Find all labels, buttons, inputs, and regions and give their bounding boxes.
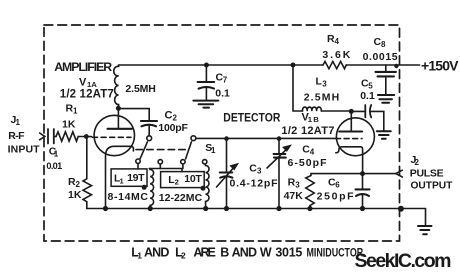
svg-text:6-50pF: 6-50pF — [288, 157, 328, 169]
svg-text:1/2 12AT7: 1/2 12AT7 — [281, 125, 334, 137]
svg-text:3: 3 — [295, 181, 300, 190]
svg-text:1: 1 — [137, 251, 142, 261]
svg-text:1: 1 — [73, 107, 78, 116]
svg-text:1K: 1K — [62, 119, 76, 131]
svg-text:2: 2 — [415, 158, 420, 167]
svg-text:250pF: 250pF — [317, 191, 355, 203]
svg-text:19T: 19T — [127, 172, 145, 184]
svg-text:INPUT: INPUT — [8, 144, 41, 156]
svg-text:2: 2 — [76, 180, 81, 189]
svg-text:6: 6 — [335, 181, 340, 190]
svg-text:B: B — [220, 245, 229, 259]
svg-text:DETECTOR: DETECTOR — [223, 112, 281, 125]
svg-text:+150V: +150V — [421, 58, 459, 74]
svg-text:W: W — [260, 245, 272, 259]
svg-text:8: 8 — [381, 40, 386, 49]
svg-text:1: 1 — [54, 149, 59, 158]
svg-text:OUTPUT: OUTPUT — [411, 181, 454, 192]
svg-text:1: 1 — [16, 118, 21, 127]
svg-text:10T: 10T — [184, 173, 202, 185]
svg-text:4: 4 — [335, 37, 340, 46]
svg-text:ARE: ARE — [193, 245, 216, 259]
svg-text:2: 2 — [175, 178, 179, 187]
svg-text:1K: 1K — [68, 189, 82, 201]
svg-text:3015: 3015 — [275, 245, 302, 259]
svg-text:AND: AND — [232, 245, 257, 259]
svg-text:0.01: 0.01 — [46, 161, 62, 171]
svg-text:12-22MC: 12-22MC — [159, 192, 203, 204]
svg-text:V: V — [79, 77, 87, 89]
svg-text:R-F: R-F — [8, 130, 25, 142]
svg-text:SeekIC.com: SeekIC.com — [355, 250, 452, 272]
svg-text:1B: 1B — [308, 115, 319, 124]
svg-text:47K: 47K — [284, 190, 304, 202]
svg-text:AMPLIFIER: AMPLIFIER — [54, 60, 112, 74]
svg-text:C: C — [165, 110, 173, 122]
svg-text:8-14MC: 8-14MC — [108, 191, 149, 203]
svg-text:3: 3 — [322, 80, 327, 89]
svg-text:PULSE: PULSE — [410, 168, 444, 180]
svg-text:2.5MH: 2.5MH — [304, 92, 340, 104]
svg-text:2.5MH: 2.5MH — [125, 83, 155, 95]
svg-text:0.1: 0.1 — [215, 88, 230, 100]
svg-text:4: 4 — [310, 148, 315, 157]
svg-text:1: 1 — [120, 176, 124, 185]
svg-text:0.1: 0.1 — [360, 90, 375, 102]
svg-text:3: 3 — [257, 167, 262, 176]
svg-text:1: 1 — [211, 146, 216, 155]
svg-text:AND: AND — [144, 245, 169, 259]
svg-text:0.0015: 0.0015 — [363, 51, 398, 63]
svg-text:7: 7 — [223, 76, 228, 85]
svg-text:0.4-12pF: 0.4-12pF — [230, 178, 279, 190]
svg-text:100pF: 100pF — [158, 122, 188, 134]
svg-text:1/2 12AT7: 1/2 12AT7 — [60, 89, 114, 101]
svg-text:2: 2 — [181, 251, 186, 261]
svg-text:3.6K: 3.6K — [322, 49, 350, 61]
